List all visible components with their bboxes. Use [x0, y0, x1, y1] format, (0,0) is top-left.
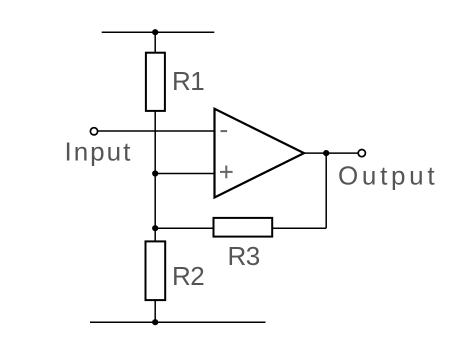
- svg-text:R2: R2: [172, 261, 204, 291]
- op-amp inverting pin label -: [221, 130, 228, 132]
- wire input terminal to inverting input: [98, 130, 215, 132]
- junction non-inverting node: [152, 170, 158, 176]
- wire top rail to R1: [154, 32, 156, 54]
- svg-text:R1: R1: [172, 66, 204, 96]
- junction bottom rail: [152, 319, 158, 325]
- svg-text:Output: Output: [338, 161, 438, 191]
- resistor R3: [214, 218, 273, 237]
- wire R3 to feedback corner: [272, 227, 326, 229]
- svg-text:R3: R3: [228, 241, 260, 271]
- wire node to non-inverting input: [155, 173, 214, 175]
- wire R1 to R2 through nodes: [154, 110, 156, 242]
- op-amp U1: [215, 109, 305, 198]
- wire op-amp output to terminal: [304, 152, 358, 154]
- input terminal: [90, 128, 97, 135]
- feedback wire vertical: [325, 153, 327, 228]
- op-amp non-inverting pin label +: [220, 166, 233, 179]
- top supply rail: [102, 31, 215, 33]
- junction feedback node: [152, 225, 158, 231]
- wire feedback node to R3: [155, 227, 213, 229]
- junction top rail: [152, 29, 158, 35]
- wire R2 to bottom rail: [154, 299, 156, 322]
- output terminal: [358, 150, 365, 157]
- junction output node: [323, 150, 329, 156]
- resistor R1: [146, 53, 165, 111]
- bottom supply rail: [90, 321, 266, 323]
- resistor R2: [146, 241, 166, 300]
- svg-text:Input: Input: [65, 137, 133, 167]
